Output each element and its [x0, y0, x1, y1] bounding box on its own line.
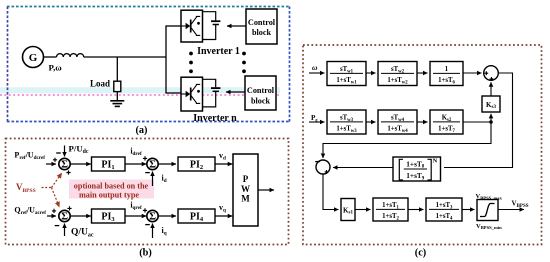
wire b1 to b2 — [366, 72, 376, 74]
svg-text:block: block — [252, 28, 272, 37]
block (1+sT3)/(1+sT4) — [426, 198, 462, 221]
IGBT Qn — [181, 84, 200, 103]
ground — [110, 101, 124, 107]
summer S3 — [59, 210, 70, 222]
sign minus sum3 bottom — [55, 225, 60, 227]
dashed red arrow to S1 — [52, 173, 62, 188]
dashed red arrow to S3 — [52, 188, 60, 208]
svg-text:Control: Control — [248, 18, 276, 27]
block sTw2 — [378, 62, 417, 86]
wire c1 output feedback — [444, 73, 513, 168]
sign plus sum1 left — [53, 158, 57, 162]
limiter block — [477, 200, 498, 221]
control block 1 — [246, 9, 277, 44]
svg-text:Load: Load — [90, 79, 110, 89]
sign minus sum4 — [145, 224, 150, 226]
sign minus c2 — [315, 161, 320, 163]
load resistor — [114, 81, 121, 91]
sign plus sum2 — [143, 156, 147, 160]
panel (a) dashed border — [7, 7, 290, 123]
svg-text:Σ: Σ — [61, 211, 68, 222]
block Ks2/(1+sT7) — [430, 110, 463, 134]
panel (b) dashed border — [6, 139, 289, 245]
svg-text:ω: ω — [312, 63, 318, 72]
summer C1 — [484, 66, 499, 81]
block sTw1 — [327, 62, 366, 86]
wire input P arrow — [46, 163, 56, 165]
block PI3 — [92, 209, 126, 223]
sign plus sum3 top — [67, 206, 71, 210]
control block n — [245, 76, 276, 110]
sign plus sum1 bottom — [66, 170, 70, 174]
svg-text:(a): (a) — [135, 125, 147, 136]
wire dc link bottom 1 — [203, 25, 216, 40]
sign plus sum3 left — [52, 209, 56, 213]
svg-text:(c): (c) — [415, 248, 426, 259]
svg-text:block: block — [251, 97, 271, 106]
wire dc link top n — [203, 79, 216, 87]
magenta dashed line — [0, 94, 279, 96]
wire b5 to b6 — [417, 121, 428, 123]
block 1/(1+sT6) — [430, 62, 463, 86]
node junction — [489, 120, 493, 124]
wire PI4 to PWM — [215, 215, 232, 217]
wire N to sumC2 — [333, 167, 393, 169]
wire PI3 to S4 — [125, 215, 146, 217]
wire dc link top 1 — [203, 12, 216, 21]
sign plus c1 bottom — [490, 77, 494, 81]
svg-text:Σ: Σ — [61, 159, 68, 170]
sign minus sum2 — [145, 172, 150, 174]
wire b6 to junction — [463, 121, 491, 123]
svg-text:Inverter 1: Inverter 1 — [197, 46, 240, 57]
wire dc link bottom n — [203, 91, 216, 107]
inductor L1 — [57, 54, 84, 57]
svg-text:Σ: Σ — [149, 159, 156, 170]
wire omega arrow — [309, 72, 325, 74]
wire iq up arrow — [152, 224, 154, 239]
wire PWM output — [258, 189, 274, 191]
dots column left — [189, 52, 193, 74]
wire b3 to sumC1 — [463, 72, 482, 74]
capacitor Cn — [211, 88, 220, 91]
sign plus c1 left — [484, 71, 488, 75]
svg-text:P,ω: P,ω — [49, 63, 63, 73]
wire c2 to Ks1 — [323, 174, 339, 210]
control arrow n — [226, 91, 245, 93]
dashed red lead — [42, 187, 52, 189]
pink highlight behind optional text — [69, 180, 154, 199]
dots column right — [242, 52, 246, 74]
sign minus sum1 top — [56, 152, 61, 154]
svg-text:(b): (b) — [139, 248, 152, 259]
svg-text:N: N — [433, 157, 438, 164]
block (1+sT1)/(1+sT2) — [373, 198, 408, 221]
svg-text:1: 1 — [445, 66, 449, 73]
block PI2 — [178, 157, 215, 171]
block sTw4 — [378, 110, 417, 134]
inverter n box — [181, 77, 203, 111]
wire main bus — [84, 56, 166, 58]
wire input Q arrow — [47, 215, 56, 217]
IGBT Q1 — [181, 16, 200, 35]
wire S4 to PI4 — [158, 215, 176, 217]
summer S2 — [147, 158, 158, 170]
cyan highlight band — [0, 87, 280, 93]
wire S3 to PI3 — [70, 215, 91, 217]
svg-text:G: G — [29, 52, 38, 64]
wire Q/Uac up arrow — [64, 224, 66, 237]
control arrow 1 — [227, 25, 246, 27]
wire G to inductor — [44, 56, 57, 58]
block PI4 — [178, 209, 215, 223]
svg-text:Control: Control — [247, 86, 275, 95]
wire b2 to b3 — [417, 72, 428, 74]
wire PI2 to PWM — [215, 163, 232, 165]
generator G — [23, 47, 44, 68]
summer C2 — [316, 160, 330, 174]
wire to inverter n — [165, 92, 181, 94]
wire Ks1 to b7 — [355, 209, 371, 211]
svg-text:M: M — [241, 194, 250, 204]
wire Ks3 to sumC1 — [490, 82, 492, 96]
inverter 1 box — [181, 10, 203, 42]
wire b7 to b8 — [408, 209, 424, 211]
svg-text:main output type: main output type — [79, 191, 139, 200]
sign plus sum4 — [143, 208, 147, 212]
wire Pe arrow — [309, 121, 325, 123]
svg-text:P: P — [243, 174, 249, 184]
wire id up arrow — [152, 172, 154, 187]
wire b8 to limiter — [462, 209, 475, 211]
wire S2 to PI2 — [158, 163, 176, 165]
block Ks3 — [482, 96, 500, 112]
svg-text:W: W — [241, 184, 250, 194]
wire junction to Ks3 — [490, 114, 492, 122]
summer S1 — [59, 158, 70, 170]
svg-text:optional based on the: optional based on the — [74, 182, 149, 191]
wire branch vertical — [165, 26, 167, 93]
block Ks1 — [341, 199, 355, 221]
wire P/Udc down arrow — [64, 146, 66, 157]
svg-text:Σ: Σ — [149, 211, 156, 222]
wire b4 to b5 — [366, 121, 376, 123]
block sTw3 — [327, 110, 366, 134]
wire junction down to sumC2 top — [323, 122, 491, 158]
summer S4 — [147, 210, 158, 222]
block N power — [393, 157, 441, 181]
block PWM — [233, 154, 258, 226]
wire load to ground — [116, 92, 118, 101]
wire PI1 to S2 — [125, 163, 146, 165]
svg-text:Inverter n: Inverter n — [193, 113, 237, 124]
wire S1 to PI1 — [70, 163, 91, 165]
capacitor C1 — [211, 21, 220, 24]
wire load tap — [116, 57, 118, 81]
panel (c) dashed border — [303, 45, 542, 245]
wire output VBPSS — [498, 209, 524, 211]
wire to inverter 1 — [165, 25, 181, 27]
sign plus c2 — [325, 170, 329, 174]
block PI1 — [92, 157, 126, 171]
